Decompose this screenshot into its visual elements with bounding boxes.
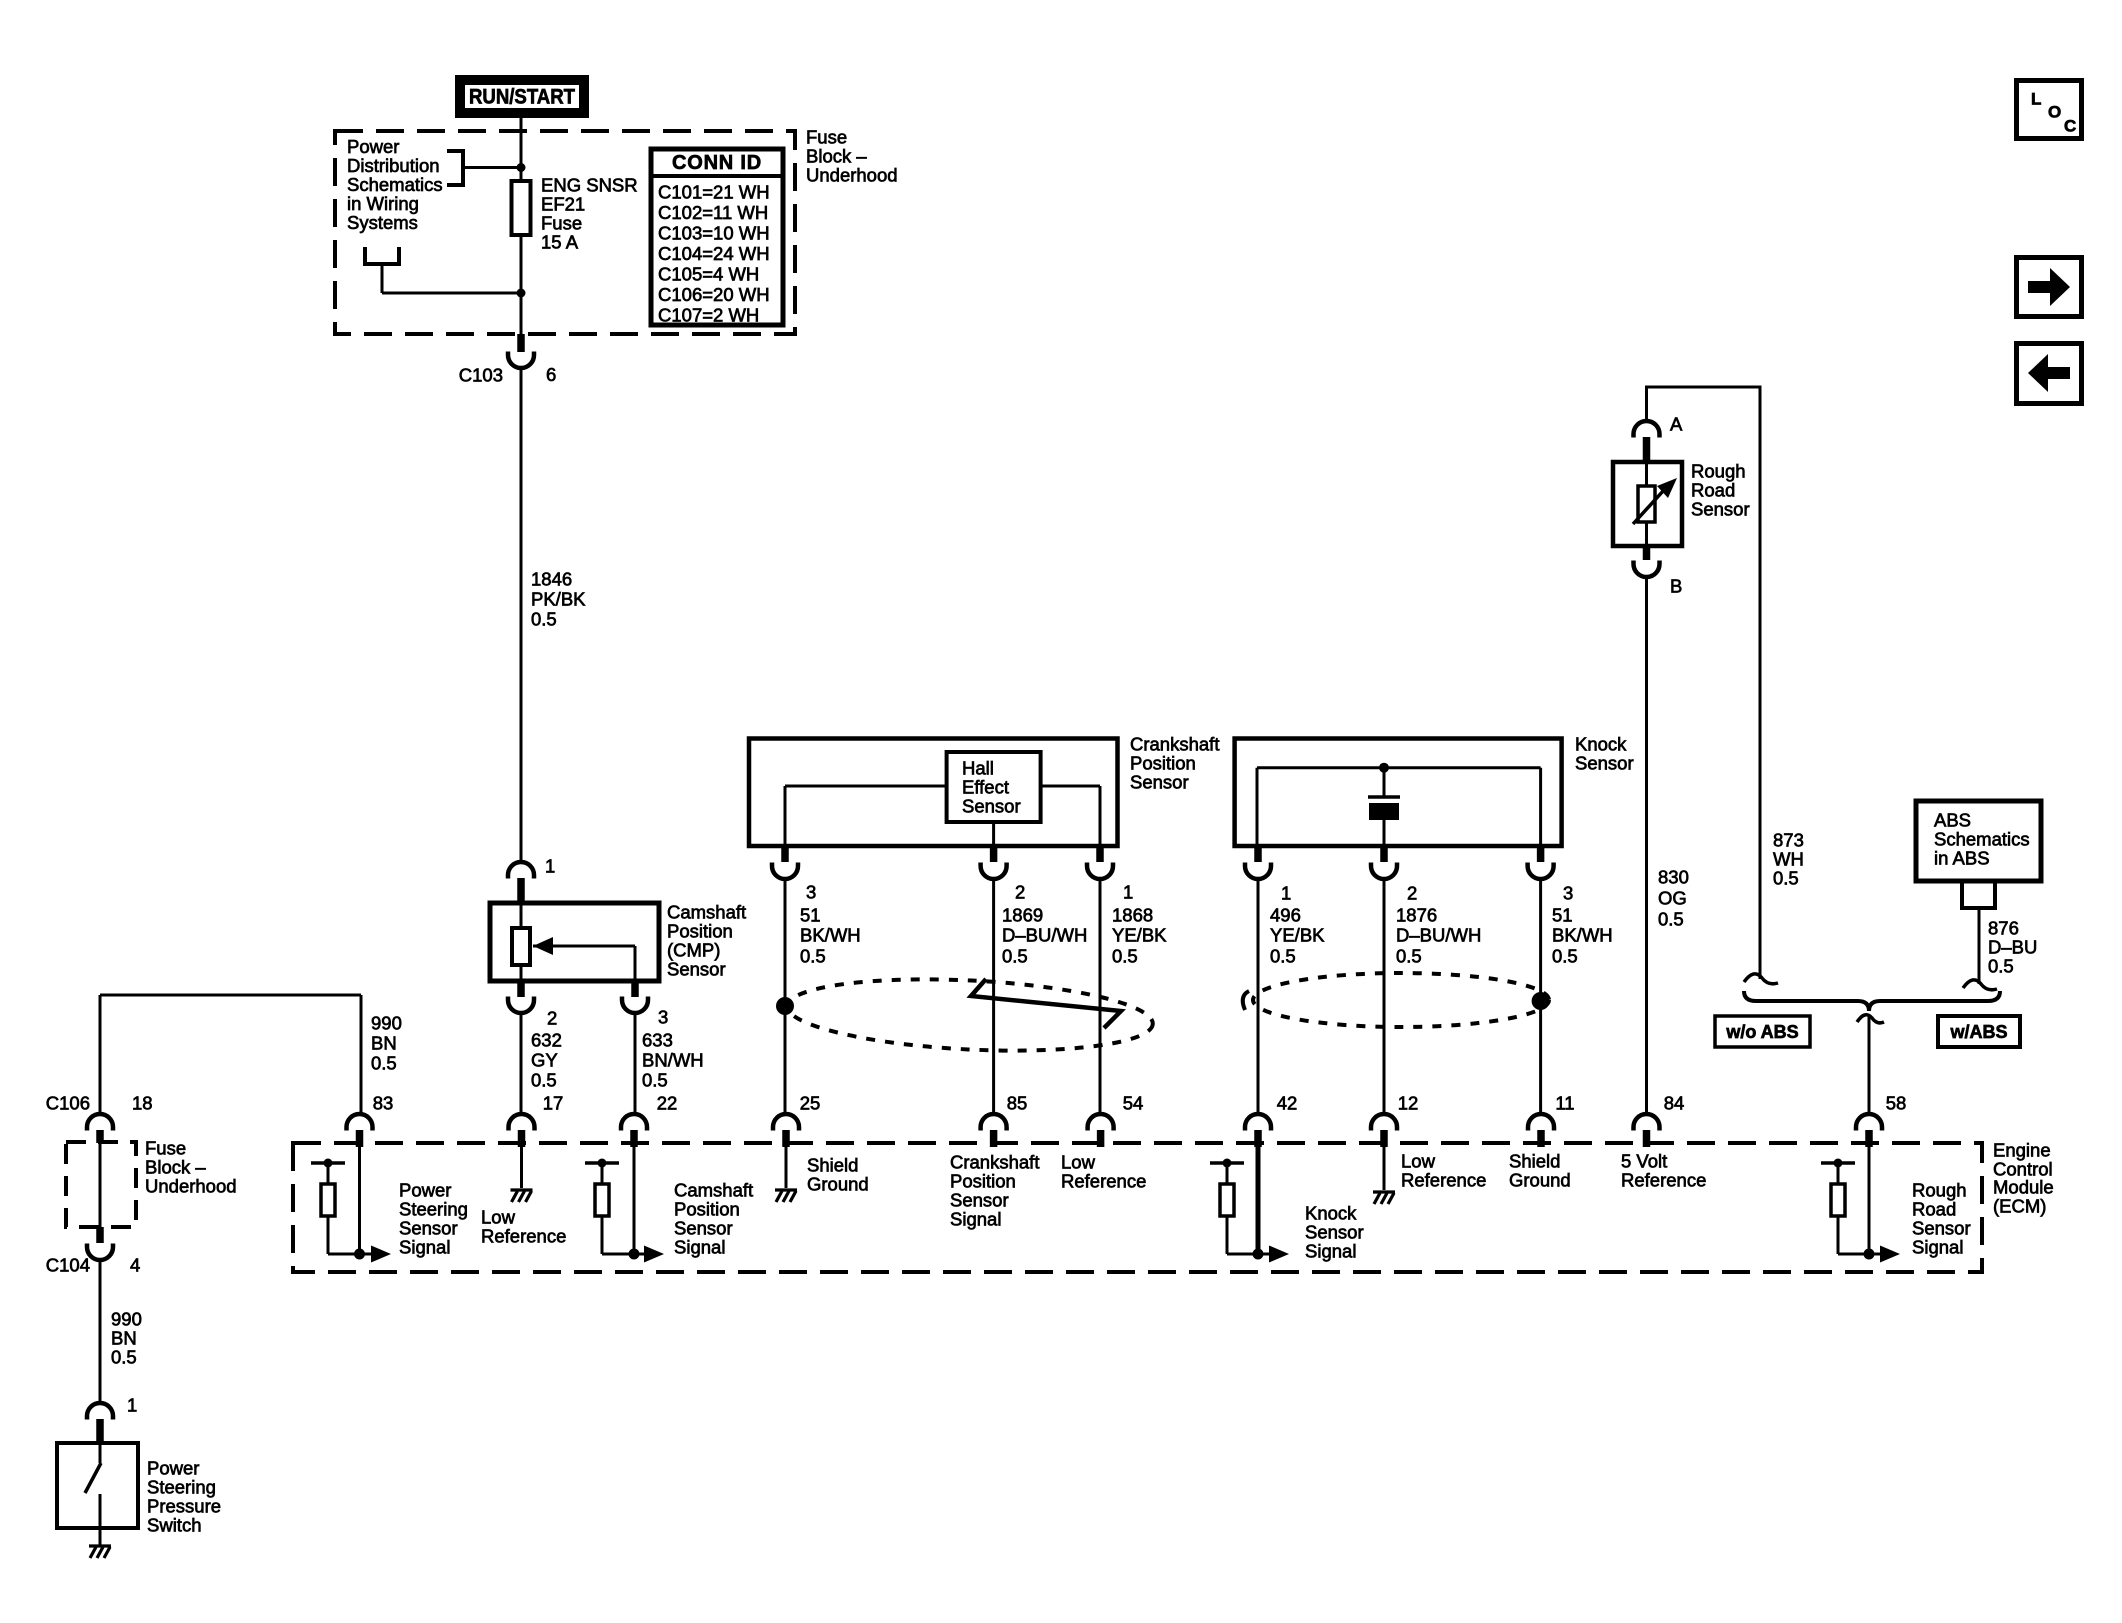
svg-text:18: 18 — [132, 1093, 153, 1114]
svg-text:85: 85 — [1007, 1093, 1028, 1114]
svg-text:1: 1 — [545, 856, 555, 877]
svg-text:in Wiring: in Wiring — [347, 193, 419, 214]
svg-text:Shield: Shield — [807, 1155, 858, 1176]
svg-text:Underhood: Underhood — [806, 165, 898, 186]
svg-text:D–BU/WH: D–BU/WH — [1396, 925, 1481, 946]
svg-text:CONN ID: CONN ID — [672, 152, 762, 174]
svg-text:496: 496 — [1270, 905, 1301, 926]
svg-text:0.5: 0.5 — [1396, 946, 1422, 967]
svg-text:ENG SNSR: ENG SNSR — [541, 175, 638, 196]
svg-text:873: 873 — [1773, 830, 1804, 851]
svg-text:Shield: Shield — [1509, 1151, 1560, 1172]
svg-text:3: 3 — [1563, 883, 1573, 904]
svg-text:2: 2 — [1407, 883, 1417, 904]
svg-text:Fuse: Fuse — [806, 127, 847, 148]
svg-text:Signal: Signal — [674, 1237, 725, 1258]
svg-text:Camshaft: Camshaft — [667, 902, 746, 923]
svg-text:0.5: 0.5 — [1658, 909, 1684, 930]
svg-text:C: C — [2064, 117, 2076, 136]
svg-text:Reference: Reference — [1401, 1170, 1486, 1191]
svg-text:990: 990 — [111, 1309, 142, 1330]
svg-text:0.5: 0.5 — [1270, 946, 1296, 967]
svg-text:Schematics: Schematics — [1934, 829, 2030, 850]
svg-text:B: B — [1670, 576, 1682, 597]
svg-text:1868: 1868 — [1112, 905, 1153, 926]
svg-text:C104=24 WH: C104=24 WH — [658, 243, 770, 264]
svg-text:0.5: 0.5 — [111, 1347, 137, 1368]
svg-text:L: L — [2031, 90, 2041, 109]
svg-text:Sensor: Sensor — [674, 1218, 733, 1239]
svg-text:C102=11 WH: C102=11 WH — [658, 202, 768, 223]
svg-text:17: 17 — [543, 1093, 564, 1114]
svg-text:D–BU/WH: D–BU/WH — [1002, 925, 1087, 946]
svg-text:Signal: Signal — [950, 1209, 1001, 1230]
svg-text:RUN/START: RUN/START — [469, 86, 575, 109]
svg-text:25: 25 — [800, 1093, 821, 1114]
svg-text:0.5: 0.5 — [531, 1070, 557, 1091]
svg-text:Low: Low — [1401, 1151, 1436, 1172]
svg-text:1: 1 — [127, 1395, 137, 1416]
svg-text:0.5: 0.5 — [800, 946, 826, 967]
svg-text:Fuse: Fuse — [541, 213, 582, 234]
svg-text:Knock: Knock — [1305, 1203, 1357, 1224]
svg-text:Ground: Ground — [807, 1174, 869, 1195]
svg-text:O: O — [2048, 103, 2061, 122]
svg-text:1869: 1869 — [1002, 905, 1043, 926]
svg-text:Effect: Effect — [962, 777, 1009, 798]
svg-text:Hall: Hall — [962, 758, 994, 779]
svg-text:BN/WH: BN/WH — [642, 1050, 704, 1071]
svg-text:YE/BK: YE/BK — [1112, 925, 1167, 946]
svg-text:Road: Road — [1912, 1199, 1956, 1220]
svg-text:C103: C103 — [459, 365, 503, 386]
svg-text:(ECM): (ECM) — [1993, 1196, 2046, 1217]
svg-text:Fuse: Fuse — [145, 1138, 186, 1159]
svg-text:ABS: ABS — [1934, 810, 1971, 831]
svg-text:632: 632 — [531, 1030, 562, 1051]
svg-text:15 A: 15 A — [541, 232, 579, 253]
svg-text:2: 2 — [547, 1008, 557, 1029]
svg-text:(CMP): (CMP) — [667, 940, 720, 961]
svg-text:Steering: Steering — [147, 1477, 216, 1498]
svg-text:51: 51 — [800, 905, 821, 926]
svg-text:Sensor: Sensor — [950, 1190, 1009, 1211]
svg-text:0.5: 0.5 — [1112, 946, 1138, 967]
svg-text:876: 876 — [1988, 918, 2019, 939]
svg-text:BN: BN — [371, 1033, 397, 1054]
svg-text:3: 3 — [806, 882, 816, 903]
svg-text:Distribution: Distribution — [347, 155, 440, 176]
svg-text:OG: OG — [1658, 888, 1687, 909]
svg-text:Block –: Block – — [145, 1157, 206, 1178]
svg-text:Signal: Signal — [399, 1237, 450, 1258]
svg-text:BN: BN — [111, 1328, 137, 1349]
svg-text:Underhood: Underhood — [145, 1176, 237, 1197]
svg-text:0.5: 0.5 — [1773, 868, 1799, 889]
svg-text:C101=21 WH: C101=21 WH — [658, 182, 770, 203]
svg-text:Position: Position — [950, 1171, 1016, 1192]
svg-text:3: 3 — [658, 1007, 668, 1028]
svg-text:1876: 1876 — [1396, 905, 1437, 926]
svg-text:Block –: Block – — [806, 146, 867, 167]
svg-text:Systems: Systems — [347, 212, 418, 233]
svg-text:633: 633 — [642, 1030, 673, 1051]
svg-text:C106: C106 — [46, 1093, 90, 1114]
svg-text:1: 1 — [1123, 882, 1133, 903]
svg-text:D–BU: D–BU — [1988, 937, 2037, 958]
svg-text:Power: Power — [347, 136, 399, 157]
svg-text:GY: GY — [531, 1050, 558, 1071]
svg-text:51: 51 — [1552, 905, 1573, 926]
svg-text:Schematics: Schematics — [347, 174, 443, 195]
svg-text:Sensor: Sensor — [1130, 772, 1189, 793]
svg-text:Knock: Knock — [1575, 734, 1627, 755]
svg-text:EF21: EF21 — [541, 194, 585, 215]
svg-text:830: 830 — [1658, 867, 1689, 888]
svg-text:Sensor: Sensor — [667, 959, 726, 980]
svg-text:1846: 1846 — [531, 569, 572, 590]
svg-text:Position: Position — [674, 1199, 740, 1220]
svg-text:0.5: 0.5 — [1002, 946, 1028, 967]
svg-text:Reference: Reference — [1621, 1170, 1706, 1191]
svg-text:Low: Low — [1061, 1152, 1096, 1173]
svg-text:0.5: 0.5 — [371, 1053, 397, 1074]
svg-text:Sensor: Sensor — [1305, 1222, 1364, 1243]
svg-text:C106=20 WH: C106=20 WH — [658, 284, 770, 305]
svg-text:Camshaft: Camshaft — [674, 1180, 753, 1201]
svg-text:0.5: 0.5 — [531, 609, 557, 630]
svg-text:11: 11 — [1555, 1093, 1574, 1114]
svg-text:1: 1 — [1281, 883, 1291, 904]
svg-text:in ABS: in ABS — [1934, 848, 1990, 869]
svg-text:Ground: Ground — [1509, 1170, 1571, 1191]
svg-text:Position: Position — [667, 921, 733, 942]
svg-text:83: 83 — [373, 1093, 394, 1114]
svg-text:YE/BK: YE/BK — [1270, 925, 1325, 946]
svg-text:42: 42 — [1277, 1093, 1298, 1114]
svg-text:WH: WH — [1773, 849, 1804, 870]
svg-text:Switch: Switch — [147, 1515, 202, 1536]
svg-text:54: 54 — [1123, 1093, 1144, 1114]
svg-text:PK/BK: PK/BK — [531, 589, 586, 610]
svg-text:4: 4 — [130, 1255, 140, 1276]
svg-text:Reference: Reference — [1061, 1171, 1146, 1192]
svg-text:Position: Position — [1130, 753, 1196, 774]
svg-text:Crankshaft: Crankshaft — [1130, 734, 1219, 755]
svg-text:Module: Module — [1993, 1177, 2054, 1198]
svg-text:Crankshaft: Crankshaft — [950, 1152, 1039, 1173]
svg-text:0.5: 0.5 — [1552, 946, 1578, 967]
svg-text:990: 990 — [371, 1013, 402, 1034]
svg-text:Sensor: Sensor — [1691, 499, 1750, 520]
svg-text:Road: Road — [1691, 480, 1735, 501]
svg-text:Signal: Signal — [1305, 1241, 1356, 1262]
svg-text:A: A — [1670, 414, 1683, 435]
svg-text:58: 58 — [1886, 1093, 1907, 1114]
svg-text:Sensor: Sensor — [962, 796, 1021, 817]
svg-text:BK/WH: BK/WH — [800, 925, 861, 946]
svg-text:5 Volt: 5 Volt — [1621, 1151, 1667, 1172]
svg-text:w/o ABS: w/o ABS — [1725, 1022, 1798, 1042]
svg-text:84: 84 — [1664, 1093, 1685, 1114]
svg-text:Power: Power — [399, 1180, 451, 1201]
svg-text:0.5: 0.5 — [1988, 956, 2014, 977]
svg-text:Pressure: Pressure — [147, 1496, 221, 1517]
svg-text:2: 2 — [1015, 882, 1025, 903]
svg-text:Sensor: Sensor — [399, 1218, 458, 1239]
svg-text:Low: Low — [481, 1207, 516, 1228]
svg-text:22: 22 — [657, 1093, 678, 1114]
svg-text:Sensor: Sensor — [1575, 753, 1634, 774]
svg-text:C107=2 WH: C107=2 WH — [658, 305, 759, 326]
svg-text:Engine: Engine — [1993, 1140, 2051, 1161]
svg-text:Rough: Rough — [1912, 1180, 1967, 1201]
svg-text:Reference: Reference — [481, 1226, 566, 1247]
svg-text:Rough: Rough — [1691, 461, 1746, 482]
svg-text:C105=4 WH: C105=4 WH — [658, 264, 759, 285]
svg-text:Sensor: Sensor — [1912, 1218, 1971, 1239]
svg-text:Steering: Steering — [399, 1199, 468, 1220]
svg-text:w/ABS: w/ABS — [1949, 1022, 2007, 1042]
svg-text:12: 12 — [1398, 1093, 1419, 1114]
svg-text:C104: C104 — [46, 1255, 90, 1276]
svg-text:BK/WH: BK/WH — [1552, 925, 1613, 946]
svg-text:0.5: 0.5 — [642, 1070, 668, 1091]
svg-text:Signal: Signal — [1912, 1237, 1963, 1258]
svg-text:6: 6 — [546, 364, 556, 385]
svg-text:C103=10 WH: C103=10 WH — [658, 223, 770, 244]
svg-text:Power: Power — [147, 1458, 199, 1479]
